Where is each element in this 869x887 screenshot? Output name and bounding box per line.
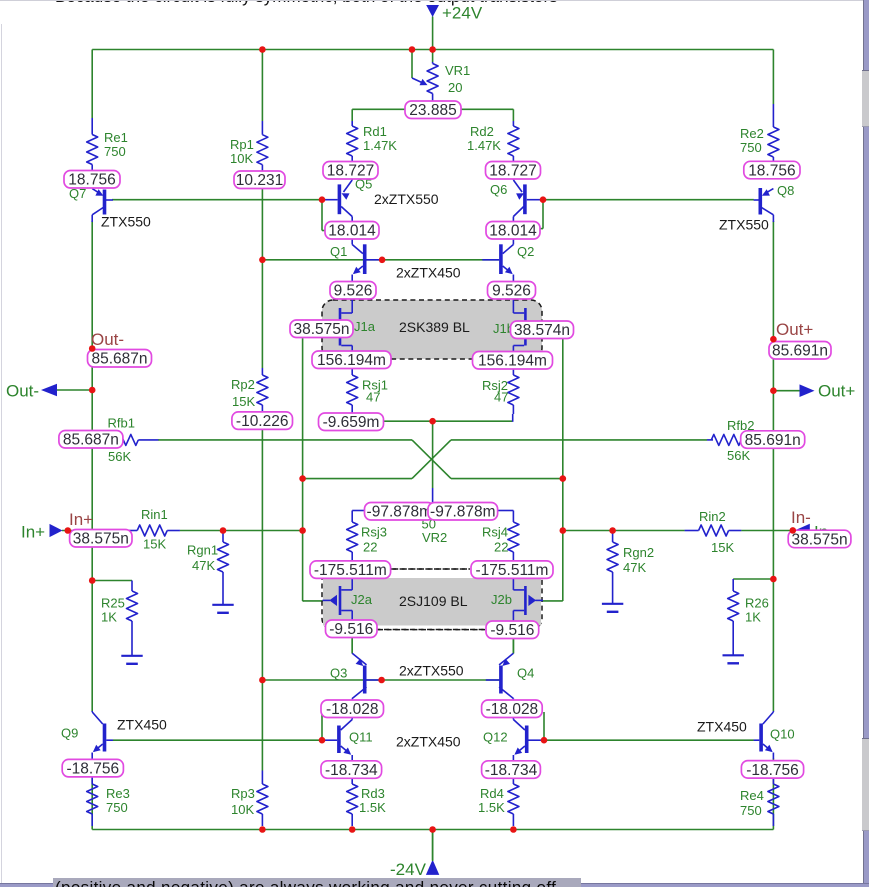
- svg-text:-18.734: -18.734: [325, 762, 378, 779]
- resistor Rd3: [351, 776, 353, 784]
- junction Out- node: [89, 345, 96, 352]
- svg-text:-9.516: -9.516: [329, 621, 373, 638]
- svg-text:-18.028: -18.028: [486, 701, 539, 718]
- svg-text:156.194m: 156.194m: [478, 353, 547, 370]
- transistor Q7 (PNP ZTX550): [103, 190, 107, 215]
- junction In+ port: [65, 527, 72, 534]
- svg-text:Rgn1: Rgn1: [187, 543, 218, 558]
- svg-text:Q3: Q3: [330, 666, 347, 681]
- svg-text:22: 22: [494, 540, 508, 555]
- wire Out+ port stub: [773, 390, 800, 392]
- port arrow In+: [50, 524, 63, 537]
- svg-text:9.526: 9.526: [492, 283, 531, 300]
- svg-text:38.575n: 38.575n: [73, 531, 129, 548]
- value box 23.885 (VR1): [405, 101, 461, 119]
- value box 156.194m (J1a source): [312, 351, 391, 369]
- junction -24V/bottom rail: [429, 826, 436, 833]
- value box -175.511m (J2a drain): [310, 561, 391, 579]
- svg-text:2SK389 BL: 2SK389 BL: [399, 319, 470, 335]
- svg-text:1K: 1K: [745, 610, 761, 625]
- svg-text:-97.878m: -97.878m: [367, 504, 432, 521]
- value box -18.734 (Q12): [482, 761, 541, 779]
- resistor R26 (1K): [732, 579, 734, 591]
- value box 10.231 (Rp1): [234, 171, 285, 189]
- value box -10.226 (Rp2): [232, 412, 293, 430]
- bottom bar: [0, 883, 869, 887]
- clipped paragraph text at bottom edge: [55, 878, 556, 887]
- JFET J2b (2SJ109 BL): [524, 586, 527, 615]
- svg-text:J2a: J2a: [351, 592, 373, 607]
- svg-text:Re2: Re2: [740, 126, 764, 141]
- wire right gate vertical: [562, 337, 564, 602]
- wire X right diagonal (Rfb2 line): [412, 440, 451, 479]
- value box 38.575n (In+): [70, 530, 132, 548]
- svg-text:Re4: Re4: [740, 788, 764, 803]
- wire Q5 base stub down: [321, 200, 323, 231]
- wire J2a gate lead-in: [303, 600, 323, 602]
- svg-text:ZTX550: ZTX550: [101, 214, 151, 230]
- value box 18.014 (Q5 collector): [325, 222, 379, 240]
- svg-text:R25: R25: [101, 596, 125, 611]
- port arrow Out+: [800, 384, 815, 397]
- svg-text:Q9: Q9: [61, 726, 78, 741]
- svg-text:Rgn2: Rgn2: [623, 545, 654, 560]
- svg-text:56K: 56K: [108, 449, 131, 464]
- wire Q6 base to Q8 base: [543, 199, 754, 201]
- svg-text:-175.511m: -175.511m: [476, 562, 549, 579]
- svg-text:-10.226: -10.226: [236, 413, 289, 430]
- svg-text:1.47K: 1.47K: [467, 138, 501, 153]
- svg-text:23.885: 23.885: [409, 102, 456, 119]
- wire VR1 top stub: [432, 50, 434, 63]
- bottom selected text band: [53, 878, 581, 887]
- svg-text:15K: 15K: [143, 537, 166, 552]
- transistor Q2 (NPN 2xZTX450): [499, 244, 503, 274]
- svg-text:2SJ109 BL: 2SJ109 BL: [399, 593, 468, 609]
- JFET J1a (2SK389 BL): [339, 308, 342, 346]
- svg-text:2xZTX450: 2xZTX450: [396, 734, 461, 750]
- svg-text:Q8: Q8: [777, 183, 794, 198]
- transistor Q6 (PNP 2xZTX550): [523, 184, 527, 214]
- svg-text:47K: 47K: [192, 558, 215, 573]
- value box -9.516 (J2a source): [326, 620, 378, 638]
- svg-text:Rin1: Rin1: [141, 507, 168, 522]
- resistor Re1: [91, 118, 93, 135]
- value box 18.756 (Re1/Q7): [64, 171, 120, 189]
- svg-text:47: 47: [366, 390, 380, 405]
- value box 9.526 (Q1 emitter): [330, 282, 376, 300]
- svg-text:-97.878m: -97.878m: [430, 504, 495, 521]
- wire Q1-Q2 base rail: [262, 259, 499, 261]
- junction Rd3/bottom rail: [349, 826, 356, 833]
- wire top +24V rail: [92, 49, 773, 51]
- wire X lower right run: [451, 478, 563, 480]
- junction Q3 base: [378, 677, 385, 684]
- svg-text:ZTX550: ZTX550: [719, 217, 769, 233]
- svg-text:Rsj4: Rsj4: [482, 525, 508, 540]
- value box 9.526 (Q2 emitter): [488, 282, 536, 300]
- svg-text:In+: In+: [69, 510, 93, 529]
- value box 38.575n (In-): [788, 530, 851, 548]
- svg-text:-18.028: -18.028: [326, 701, 379, 718]
- svg-text:85.687n: 85.687n: [91, 351, 147, 368]
- svg-text:18.727: 18.727: [327, 163, 374, 180]
- value box 85.687n (Rfb1): [59, 431, 123, 449]
- resistor Rfb2 (56K feedback): [707, 439, 713, 441]
- svg-text:18.727: 18.727: [489, 163, 536, 180]
- wire Q12 base to Q10 base: [546, 739, 754, 741]
- port arrow Out-: [41, 384, 57, 397]
- resistor Rfb1 (56K feedback): [97, 439, 108, 441]
- value box -18.028 (Q3): [321, 700, 384, 718]
- JFET J1b (2SK389 BL): [524, 308, 527, 346]
- svg-text:Re3: Re3: [106, 786, 130, 801]
- junction Q6 base: [540, 196, 547, 203]
- transistor Q12 (NPN 2xZTX450): [525, 726, 529, 754]
- wire Rd1 top link: [352, 108, 405, 110]
- svg-text:10K: 10K: [231, 802, 254, 817]
- junction left gate/In+ row: [299, 527, 306, 534]
- svg-text:Rfb1: Rfb1: [108, 416, 135, 431]
- wire Q9 base to Q11 base: [113, 739, 322, 741]
- svg-text:-9.516: -9.516: [490, 622, 534, 639]
- resistor Rd2: [512, 121, 514, 126]
- wire X left diagonal (Rfb1 line): [412, 440, 451, 479]
- wire -24V drop: [432, 830, 434, 861]
- svg-text:47: 47: [494, 390, 508, 405]
- value box 18.756 (Re2/Q8): [744, 161, 800, 179]
- value box -18.028 (Q4): [482, 700, 543, 718]
- svg-text:-24V: -24V: [390, 860, 427, 879]
- resistor Rp2 (15K): [261, 368, 263, 375]
- junction Q11 base: [319, 737, 326, 744]
- junction Rgn1 tap: [220, 527, 227, 534]
- power port +24V triangle: [426, 5, 439, 17]
- transistor Q4 (PNP 2xZTX550): [499, 666, 503, 694]
- svg-text:-18.734: -18.734: [485, 762, 538, 779]
- svg-text:Q10: Q10: [770, 727, 795, 742]
- svg-text:+24V: +24V: [442, 4, 483, 23]
- svg-text:2xZTX550: 2xZTX550: [374, 191, 439, 207]
- svg-text:Rp1: Rp1: [230, 137, 254, 152]
- junction Rp1/top rail: [259, 46, 266, 53]
- junction left gate/X: [299, 475, 306, 482]
- svg-text:1.5K: 1.5K: [478, 800, 505, 815]
- resistor Rsj2: [512, 367, 514, 375]
- junction Rgn2 tap: [609, 527, 616, 534]
- value box -9.516 (J2b source): [486, 621, 539, 639]
- svg-text:1.5K: 1.5K: [359, 800, 386, 815]
- JFET J2a (2SJ109 BL): [339, 586, 342, 615]
- svg-text:10.231: 10.231: [236, 172, 283, 189]
- transistor Q11 (NPN 2xZTX450): [337, 726, 341, 754]
- resistor Rsj3: [352, 510, 364, 512]
- svg-text:750: 750: [740, 803, 762, 818]
- junction VR1 wiper/top rail: [409, 46, 416, 53]
- svg-text:Rsj3: Rsj3: [361, 525, 387, 540]
- value box -18.734 (Q11): [321, 761, 382, 779]
- wire Q3 emitter feed: [351, 638, 353, 654]
- window left hairline: [1, 24, 2, 887]
- svg-text:38.574n: 38.574n: [514, 322, 570, 339]
- wire Rp1 feed: [261, 50, 263, 122]
- junction Rp1/Q1 base rail: [259, 257, 266, 264]
- wire Q4 collector drop: [512, 638, 514, 654]
- svg-text:Out+: Out+: [776, 320, 813, 339]
- resistor Rin2 (15K): [685, 530, 699, 532]
- value box -18.756 (Q9/Re3): [62, 759, 123, 777]
- junction right gate/In- row: [560, 527, 567, 534]
- junction source join centre: [429, 418, 436, 425]
- svg-text:18.014: 18.014: [328, 223, 376, 240]
- svg-text:15K: 15K: [232, 394, 255, 409]
- wire Rin1 to gate node: [180, 530, 303, 532]
- svg-text:Out+: Out+: [818, 382, 855, 401]
- svg-text:Rp3: Rp3: [231, 786, 255, 801]
- wire Q3 collector drop: [351, 638, 353, 654]
- wire Q6 base stub down: [542, 200, 544, 229]
- value box 18.014 (Q6 collector): [486, 222, 540, 240]
- wire right rail bottom corner: [772, 759, 774, 830]
- wire X lower left run: [303, 478, 412, 480]
- resistor Rd4: [512, 776, 514, 784]
- junction R25 tap: [89, 577, 96, 584]
- svg-text:Out-: Out-: [6, 382, 39, 401]
- ground (Rgn1): [212, 605, 233, 613]
- transistor Q3 (PNP 2xZTX550): [363, 666, 367, 694]
- wire Out- port stub: [57, 389, 92, 391]
- wire Rp1 bottom to Q1 base rail: [261, 189, 263, 261]
- svg-text:18.756: 18.756: [748, 162, 795, 179]
- resistor Rp3: [261, 771, 263, 785]
- svg-text:750: 750: [104, 144, 126, 159]
- potentiometer VR1: [432, 62, 434, 64]
- wire Rd2 top link: [461, 108, 513, 110]
- resistor R25 (1K): [131, 581, 133, 592]
- svg-text:85.687n: 85.687n: [63, 432, 119, 449]
- svg-text:Rd2: Rd2: [470, 124, 494, 139]
- svg-text:1K: 1K: [101, 610, 117, 625]
- wire J2b gate lead-in: [542, 600, 563, 602]
- junction +24V/top rail: [429, 46, 436, 53]
- wire feedback Rfb2 to X: [451, 439, 707, 441]
- wire Q3-Q4 base rail: [262, 679, 500, 681]
- resistor Rgn2 (47K): [612, 531, 614, 543]
- svg-text:18.014: 18.014: [489, 223, 537, 240]
- transistor Q9 (NPN ZTX450): [103, 724, 107, 752]
- resistor Rin1 (15K): [123, 530, 125, 532]
- wire VR1 wiper drop: [411, 50, 413, 79]
- junction R26 tap: [770, 576, 777, 583]
- wire left gate vertical: [302, 338, 304, 601]
- value box -9.659m (source join): [319, 413, 384, 431]
- wire right out rail (Q8 collector down to Q10): [772, 221, 774, 711]
- svg-text:156.194m: 156.194m: [317, 352, 386, 369]
- junction right gate/X: [560, 475, 567, 482]
- resistor Re3: [91, 777, 93, 784]
- junction Q5 base: [319, 196, 326, 203]
- svg-text:Q11: Q11: [349, 730, 373, 745]
- svg-text:Q6: Q6: [490, 182, 507, 197]
- wire source join row (Rsj1-Rsj2): [351, 413, 353, 421]
- wire +24V drop: [432, 17, 434, 50]
- transistor Q1 (NPN 2xZTX450): [363, 244, 367, 274]
- svg-text:22: 22: [363, 540, 377, 555]
- resistor Rgn1 (47K): [222, 531, 224, 543]
- svg-text:20: 20: [448, 80, 462, 95]
- svg-text:Rd3: Rd3: [361, 786, 385, 801]
- svg-text:2xZTX450: 2xZTX450: [396, 265, 461, 281]
- value box 38.574n (J1b drain): [511, 321, 574, 339]
- clipped paragraph text at top edge: [55, 0, 558, 7]
- svg-text:38.575n: 38.575n: [792, 531, 848, 548]
- junction Q1 base: [379, 257, 386, 264]
- value box 85.691n (Rfb2): [741, 431, 805, 449]
- ground (R25): [121, 656, 142, 664]
- svg-text:In-: In-: [791, 508, 811, 527]
- svg-text:ZTX450: ZTX450: [117, 717, 167, 733]
- svg-text:750: 750: [106, 800, 128, 815]
- port arrow In-: [795, 524, 810, 537]
- wire Rp2 to Rp3 segment: [261, 428, 263, 770]
- vertical scrollbar: [863, 0, 869, 887]
- junction Rp3/bottom rail: [259, 826, 266, 833]
- wire Q4 emitter feed: [512, 638, 514, 654]
- window top hairline: [0, 0, 869, 1]
- svg-text:38.575n: 38.575n: [293, 321, 349, 338]
- svg-text:Rd1: Rd1: [363, 124, 387, 139]
- svg-text:J1a: J1a: [354, 319, 376, 334]
- svg-text:-18.756: -18.756: [67, 761, 120, 778]
- value box 18.727 (Rd1): [323, 162, 378, 180]
- svg-text:-175.511m: -175.511m: [314, 562, 387, 579]
- svg-text:85.691n: 85.691n: [772, 343, 828, 360]
- wire Q7 base to Q5 base: [112, 199, 322, 201]
- resistor Re2: [772, 104, 774, 127]
- junction In- port: [790, 527, 797, 534]
- wire In+ port to Rin1: [62, 530, 124, 532]
- svg-text:Rp2: Rp2: [231, 377, 255, 392]
- dual JFET package 2SK389 (J1a/J1b): [322, 300, 542, 359]
- power port -24V triangle: [426, 860, 439, 875]
- junction Rp2-Rp3/Q3 base: [259, 677, 266, 684]
- svg-text:ZTX450: ZTX450: [697, 719, 747, 735]
- wire feedback Rfb1 to X: [158, 439, 412, 441]
- wire left out rail (Q7 collector down to Q9): [91, 221, 93, 711]
- value box 156.194m (J1b source): [473, 352, 553, 370]
- svg-text:Rd4: Rd4: [480, 786, 504, 801]
- wire centre drop from source row: [432, 421, 434, 488]
- svg-text:Q4: Q4: [517, 666, 534, 681]
- svg-text:Rin2: Rin2: [699, 509, 726, 524]
- svg-text:In+: In+: [21, 523, 45, 542]
- wire Rin2 to In- port: [741, 530, 793, 532]
- svg-text:J2b: J2b: [491, 592, 512, 607]
- resistor Rp1: [261, 121, 263, 135]
- wire Rp2 segment: [261, 260, 263, 368]
- wire Q11 base stub up: [321, 712, 323, 740]
- value box -18.756 (Q10/Re4): [741, 761, 803, 779]
- svg-text:9.526: 9.526: [334, 283, 373, 300]
- junction Out+ node: [770, 336, 777, 343]
- wire left rail bottom corner: [91, 763, 93, 830]
- svg-text:Re1: Re1: [104, 130, 128, 145]
- svg-text:-18.756: -18.756: [746, 762, 799, 779]
- junction Rd4/bottom rail: [510, 826, 517, 833]
- svg-text:VR2: VR2: [422, 530, 447, 545]
- wire Q12 base stub up: [543, 712, 545, 740]
- wire R25 link: [92, 580, 132, 582]
- resistor Rsj1: [351, 367, 353, 375]
- svg-text:56K: 56K: [727, 448, 750, 463]
- junction Out+ port: [770, 387, 777, 394]
- value box 85.687n (Out- node): [88, 350, 152, 368]
- dashed match line J2 top: [391, 568, 470, 570]
- value box 85.691n (Out+ node): [769, 342, 831, 360]
- svg-text:Out-: Out-: [91, 330, 124, 349]
- ground (Rgn2): [602, 604, 623, 612]
- svg-text:10K: 10K: [230, 151, 253, 166]
- value box 18.727 (Rd2): [486, 162, 541, 180]
- transistor Q10 (NPN ZTX450): [759, 724, 763, 752]
- svg-text:VR1: VR1: [445, 63, 470, 78]
- svg-text:Q12: Q12: [483, 730, 508, 745]
- wire right rail upper segment (Re2 feed): [772, 50, 774, 105]
- svg-text:750: 750: [740, 140, 762, 155]
- wire bottom -24V rail: [92, 829, 773, 831]
- svg-text:-9.659m: -9.659m: [323, 414, 380, 431]
- dashed match line J2 bottom: [378, 629, 485, 631]
- transistor Q5 (PNP 2xZTX550): [338, 184, 342, 214]
- value box -175.511m (J2b drain): [471, 561, 553, 579]
- svg-text:Q1: Q1: [330, 244, 347, 259]
- potentiometer VR2 (hidden lead): [432, 488, 434, 504]
- transistor Q8 (PNP ZTX550): [758, 188, 762, 215]
- wire R26 link: [733, 578, 773, 580]
- svg-text:18.756: 18.756: [68, 172, 115, 189]
- resistor Re4: [772, 777, 774, 784]
- dual JFET package 2SJ109 (J2a/J2b): [322, 569, 542, 630]
- svg-text:R26: R26: [745, 596, 769, 611]
- value box -97.878m (VR2 right): [428, 503, 498, 521]
- wire left rail upper segment (Re1 feed): [91, 50, 93, 119]
- svg-text:47K: 47K: [623, 560, 646, 575]
- svg-text:1.47K: 1.47K: [363, 138, 397, 153]
- svg-text:85.691n: 85.691n: [745, 432, 801, 449]
- junction Q12 base: [541, 737, 548, 744]
- svg-text:Q2: Q2: [517, 244, 534, 259]
- svg-text:2xZTX550: 2xZTX550: [399, 663, 464, 679]
- junction Out- port: [89, 387, 96, 394]
- value box 38.575n (J1a drain): [290, 320, 353, 338]
- wire In- row (gate node to Rin2): [563, 530, 685, 532]
- resistor Rsj4: [498, 510, 514, 512]
- svg-text:15K: 15K: [711, 540, 734, 555]
- resistor Rd1: [351, 121, 353, 126]
- value box -97.878m (VR2 left, clipped): [365, 503, 435, 521]
- ground (R26): [723, 655, 744, 663]
